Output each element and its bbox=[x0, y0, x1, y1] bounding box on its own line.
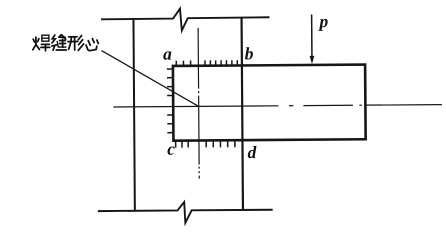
svg-text:d: d bbox=[248, 142, 257, 162]
svg-text:b: b bbox=[245, 43, 254, 63]
svg-text:p: p bbox=[317, 11, 328, 31]
svg-text:a: a bbox=[163, 44, 172, 64]
svg-text:c: c bbox=[167, 139, 175, 159]
